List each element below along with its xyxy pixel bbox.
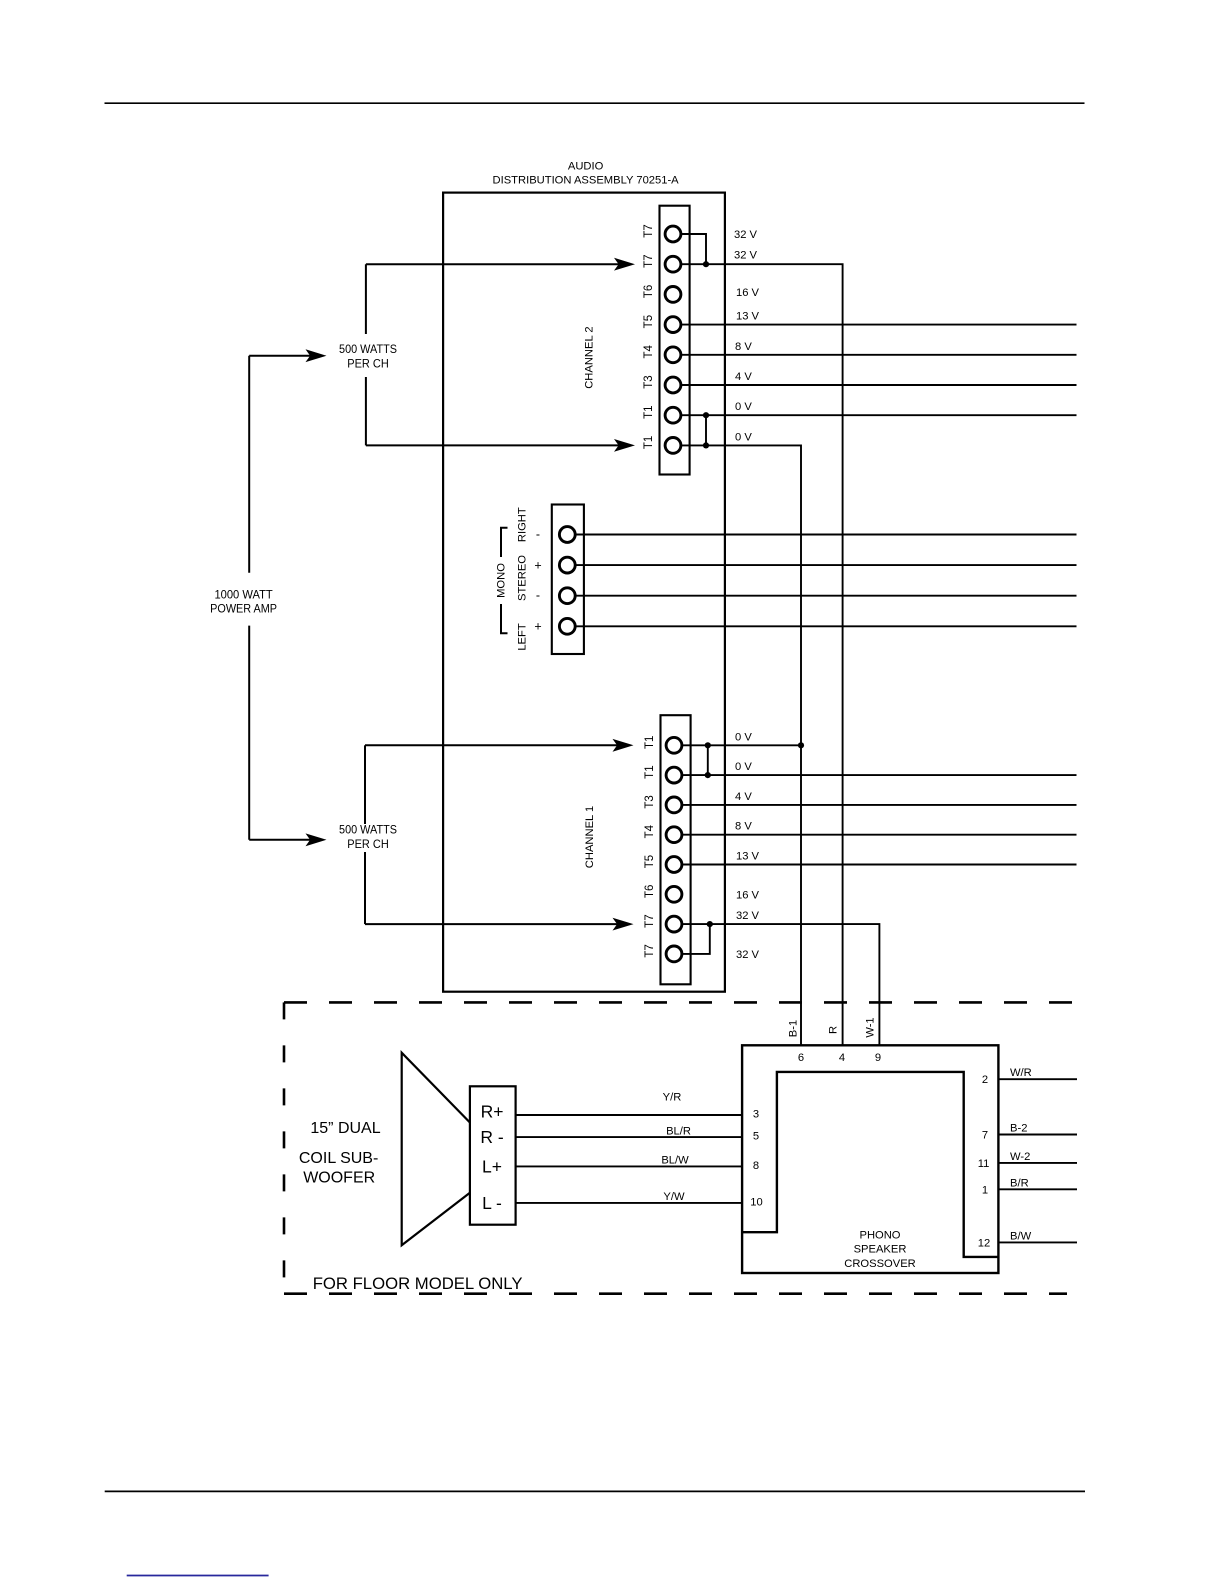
svg-text:T1: T1 (644, 765, 656, 778)
channel 1 terminal strip body (661, 715, 691, 984)
svg-text:6: 6 (798, 1052, 804, 1064)
svg-text:W/R: W/R (1010, 1067, 1032, 1079)
wire 13V ch2 (682, 324, 1077, 326)
label 15" DUAL COIL SUB-WOOFER (299, 1120, 381, 1186)
wire 8V ch2 (682, 354, 1077, 356)
svg-text:3: 3 (753, 1109, 759, 1121)
wire 8V ch1 (683, 834, 1077, 836)
terminal T5 ch1 (644, 855, 682, 873)
junction dot ch2 0V lower (703, 442, 709, 448)
tie wire between T1 junctions ch2 (705, 415, 707, 445)
svg-text:T7: T7 (644, 914, 656, 927)
ch2 feeder arrow to T7 (366, 258, 635, 271)
wire 0V ch1 lower (683, 774, 1077, 776)
terminal T1 (ch1 upper) (644, 736, 682, 754)
svg-text:WOOFER: WOOFER (303, 1169, 375, 1186)
speaker terminal box (470, 1086, 516, 1224)
svg-text:13 V: 13 V (736, 311, 760, 323)
svg-text:8: 8 (753, 1160, 759, 1172)
wire left plus (576, 625, 1077, 627)
svg-text:5: 5 (753, 1131, 759, 1143)
svg-text:13 V: 13 V (736, 851, 760, 863)
dashed enclosure left edge (283, 1002, 286, 1293)
svg-text:10: 10 (750, 1196, 762, 1208)
tie wire between T1 junctions ch1 (707, 745, 709, 775)
terminal T6 ch1 (644, 885, 682, 903)
terminal T4 ch1 (644, 824, 682, 842)
assembly box outline (443, 193, 725, 992)
amp bracket vertical (248, 356, 250, 840)
svg-text:T7: T7 (644, 944, 656, 957)
svg-text:RIGHT: RIGHT (516, 507, 528, 542)
crossover inner outline (742, 1072, 998, 1257)
svg-text:1: 1 (982, 1184, 988, 1196)
svg-text:T7: T7 (643, 254, 655, 267)
terminal T1 (ch1 lower) (644, 765, 682, 783)
svg-text:Y/W: Y/W (663, 1191, 685, 1203)
junction dot ch2 0V upper (703, 412, 709, 418)
wire right plus (576, 564, 1077, 566)
svg-text:PHONO: PHONO (859, 1229, 900, 1241)
svg-text:COIL SUB-: COIL SUB- (299, 1150, 378, 1167)
terminal RIGHT plus (559, 557, 575, 573)
dashed enclosure top edge (284, 1001, 1081, 1004)
dashed enclosure bottom edge (284, 1292, 1067, 1295)
wire right minus (576, 534, 1077, 536)
svg-text:32 V: 32 V (734, 250, 758, 262)
svg-text:T6: T6 (643, 285, 655, 298)
junction dot ch2 32V (703, 261, 709, 267)
svg-text:BL/R: BL/R (666, 1126, 691, 1138)
svg-text:W-2: W-2 (1010, 1151, 1030, 1163)
terminal T7 (ch2 upper) (643, 224, 681, 242)
svg-text:9: 9 (875, 1052, 881, 1064)
svg-text:R: R (828, 1026, 840, 1034)
ch1 feeder arrow to T1 (365, 739, 634, 752)
wire B/W (998, 1241, 1077, 1243)
amp arrow to ch2 amp (249, 349, 326, 362)
junction dot ch1 0V upper (705, 742, 711, 748)
ch2 amp feeder vertical (365, 264, 367, 445)
svg-text:B/W: B/W (1010, 1230, 1032, 1242)
svg-text:R+: R+ (481, 1102, 504, 1122)
svg-text:500 WATTS: 500 WATTS (339, 342, 397, 356)
svg-text:0 V: 0 V (735, 761, 752, 773)
wire 4V ch2 (682, 384, 1077, 386)
svg-text:2: 2 (982, 1074, 988, 1086)
junction dot B-1 tap (798, 742, 804, 748)
svg-text:MONO: MONO (496, 563, 508, 598)
svg-text:LEFT: LEFT (516, 623, 528, 651)
svg-text:12: 12 (978, 1237, 990, 1249)
svg-text:B-2: B-2 (1010, 1123, 1027, 1135)
svg-text:CROSSOVER: CROSSOVER (844, 1258, 916, 1270)
wire 32V ch1 to crossover W-1 (683, 924, 880, 1045)
wire R- BL/R (516, 1136, 743, 1138)
svg-text:4: 4 (839, 1052, 845, 1064)
wire jog T7 to T7 ch1 (683, 924, 710, 954)
junction dot ch1 32V (707, 921, 713, 927)
svg-text:CHANNEL 1: CHANNEL 1 (584, 806, 596, 868)
svg-text:0 V: 0 V (735, 431, 752, 443)
page top rule (105, 102, 1085, 104)
wire 0V ch1 upper to B-1 junction (683, 744, 801, 746)
ch1 amp feeder vertical (364, 745, 366, 924)
terminal T3 ch1 (644, 795, 682, 813)
svg-text:B/R: B/R (1010, 1177, 1029, 1189)
ch1 feeder arrow to T7 (365, 918, 634, 931)
svg-text:PER CH: PER CH (347, 837, 389, 851)
svg-text:7: 7 (982, 1130, 988, 1142)
label 500 WATTS PER CH (ch2) (339, 342, 397, 371)
svg-text:B-1: B-1 (788, 1020, 800, 1037)
svg-text:CHANNEL 2: CHANNEL 2 (584, 326, 596, 388)
mono bracket (501, 528, 508, 633)
svg-text:W-1: W-1 (865, 1017, 877, 1037)
svg-text:500 WATTS: 500 WATTS (339, 822, 397, 836)
svg-text:0 V: 0 V (735, 401, 752, 413)
channel 2 terminal strip body (660, 206, 690, 475)
terminal RIGHT minus (559, 527, 575, 543)
terminal T7 (ch1 lower) (644, 944, 682, 962)
svg-text:BL/W: BL/W (661, 1155, 689, 1167)
svg-text:0 V: 0 V (735, 731, 752, 743)
svg-text:STEREO: STEREO (516, 555, 528, 601)
svg-text:R -: R - (480, 1127, 504, 1147)
svg-text:16 V: 16 V (736, 287, 760, 299)
svg-text:SPEAKER: SPEAKER (854, 1244, 907, 1256)
svg-text:32 V: 32 V (736, 949, 760, 961)
terminal T6 ch2 (643, 285, 681, 303)
svg-text:L -: L - (482, 1193, 502, 1213)
svg-text:AUDIO: AUDIO (568, 161, 604, 173)
svg-text:4 V: 4 V (735, 371, 752, 383)
stereo terminal strip body (552, 505, 584, 655)
wire 32V ch2 to crossover R (682, 264, 843, 1045)
wire B-2 (998, 1134, 1077, 1136)
svg-text:8 V: 8 V (735, 341, 752, 353)
svg-text:+: + (534, 559, 541, 573)
svg-text:T4: T4 (643, 344, 655, 358)
svg-text:32 V: 32 V (734, 229, 758, 241)
wire 0V ch2 upper (682, 414, 1077, 416)
svg-text:T7: T7 (643, 224, 655, 237)
svg-text:+: + (534, 620, 541, 634)
svg-text:PER CH: PER CH (347, 357, 389, 371)
svg-text:4 V: 4 V (735, 791, 752, 803)
terminal T7 (ch2 lower) (643, 254, 681, 272)
svg-text:T3: T3 (643, 375, 655, 388)
wire 13V ch1 (683, 864, 1077, 866)
title AUDIO DISTRIBUTION ASSEMBLY 70251-A (493, 161, 680, 187)
wire jog T7 to T7 ch2 (682, 234, 706, 264)
svg-text:11: 11 (978, 1158, 990, 1170)
svg-text:T5: T5 (643, 315, 655, 328)
wire 0V ch2 lower to crossover B-1 (682, 445, 801, 1045)
label 1000 WATT POWER AMP (210, 587, 277, 615)
label 500 WATTS PER CH (ch1) (339, 822, 397, 851)
terminal T1 (ch2 lower) (643, 436, 681, 454)
svg-text:T1: T1 (643, 436, 655, 449)
crossover outer box (742, 1045, 998, 1273)
svg-text:32 V: 32 V (736, 910, 760, 922)
svg-text:15” DUAL: 15” DUAL (310, 1120, 380, 1137)
svg-text:T3: T3 (644, 795, 656, 808)
terminal T3 ch2 (643, 375, 681, 393)
svg-text:8 V: 8 V (735, 821, 752, 833)
terminal T7 (ch1 upper) (644, 914, 682, 932)
wire 4V ch1 (683, 804, 1077, 806)
terminal LEFT plus (559, 618, 575, 634)
svg-text:16 V: 16 V (736, 889, 760, 901)
svg-text:-: - (536, 589, 540, 603)
wire B/R (998, 1188, 1077, 1190)
terminal LEFT minus (559, 588, 575, 604)
label PHONO SPEAKER CROSSOVER (844, 1229, 916, 1270)
amp arrow to ch1 amp (249, 833, 326, 846)
svg-text:T1: T1 (643, 405, 655, 418)
svg-text:T4: T4 (644, 824, 656, 838)
wire L+ BL/W (516, 1165, 743, 1167)
svg-text:FOR FLOOR MODEL ONLY: FOR FLOOR MODEL ONLY (313, 1274, 523, 1293)
footer link underline (127, 1575, 269, 1577)
svg-text:T1: T1 (644, 736, 656, 749)
ch2 feeder arrow to T1 (366, 439, 635, 452)
svg-text:Y/R: Y/R (663, 1092, 682, 1104)
svg-text:-: - (536, 528, 540, 542)
terminal T4 ch2 (643, 344, 681, 362)
wire R+ Y/R (516, 1114, 743, 1116)
page bottom rule (105, 1490, 1085, 1492)
wire L- Y/W (516, 1202, 743, 1204)
svg-text:POWER AMP: POWER AMP (210, 601, 277, 615)
svg-text:DISTRIBUTION ASSEMBLY 70251-A: DISTRIBUTION ASSEMBLY 70251-A (493, 175, 680, 187)
terminal T5 ch2 (643, 315, 681, 333)
wire left minus (576, 595, 1077, 597)
terminal T1 (ch2 upper) (643, 405, 681, 423)
svg-text:T6: T6 (644, 885, 656, 898)
svg-text:1000 WATT: 1000 WATT (214, 587, 273, 601)
svg-text:T5: T5 (644, 855, 656, 868)
speaker cone (402, 1053, 470, 1246)
wire W-2 (998, 1162, 1077, 1164)
svg-text:L+: L+ (482, 1156, 502, 1176)
junction dot ch1 0V lower (705, 772, 711, 778)
wire W/R (998, 1078, 1077, 1080)
